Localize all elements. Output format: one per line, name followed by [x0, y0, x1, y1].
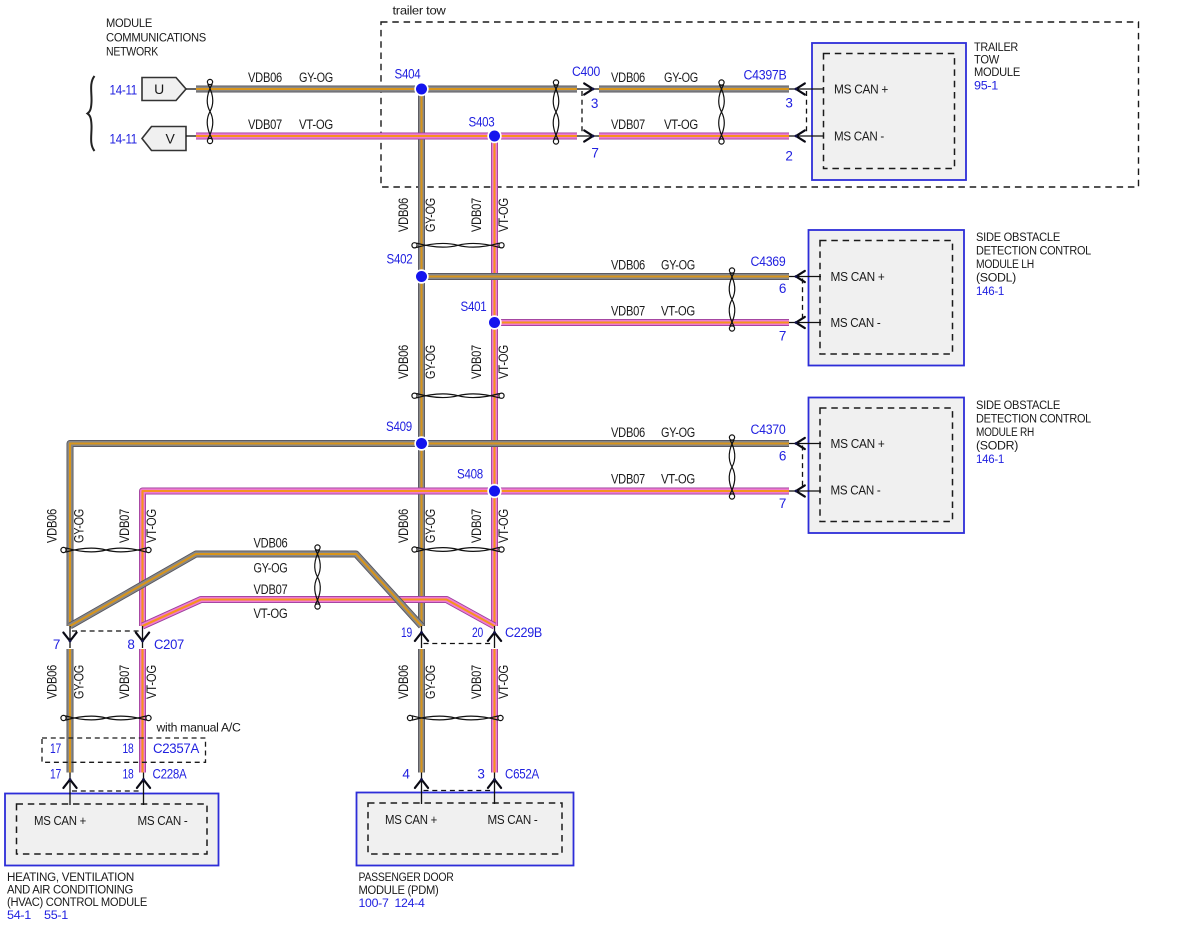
svg-text:7: 7	[53, 637, 60, 652]
connector C229B stem pin 19	[421, 626, 423, 648]
svg-text:VDB06: VDB06	[45, 665, 60, 699]
connector C652A stem pin 3	[494, 773, 496, 805]
connector V symbol	[142, 127, 186, 151]
twisted pair symbol on vertical buses above S402	[412, 243, 504, 248]
connector C228A arrow pin 17	[63, 780, 76, 788]
connector C4370 lead MS CAN -	[789, 490, 821, 492]
svg-text:(SODR): (SODR)	[976, 439, 1018, 453]
splice S408 dot	[487, 484, 501, 498]
svg-text:17: 17	[50, 767, 61, 782]
connector C400 arrow pin 7	[584, 130, 593, 141]
connector C4397B arrow pin 2	[796, 130, 805, 141]
svg-text:GY-OG: GY-OG	[72, 665, 87, 699]
svg-text:VDB06: VDB06	[254, 536, 288, 551]
wire VDB07 top bus (V connector to C400)	[196, 133, 577, 140]
svg-text:55-1: 55-1	[44, 908, 68, 922]
svg-text:with manual A/C: with manual A/C	[156, 721, 241, 735]
svg-text:100-7: 100-7	[359, 896, 389, 910]
svg-text:VT-OG: VT-OG	[496, 509, 511, 543]
connector C4369 lead MS CAN -	[789, 322, 821, 324]
svg-text:GY-OG: GY-OG	[423, 665, 438, 699]
twisted pair symbol on vertical buses above C229B	[412, 547, 504, 552]
trailer tow module box inner dashed outline	[824, 54, 955, 169]
svg-text:DETECTION CONTROL: DETECTION CONTROL	[976, 244, 1091, 258]
svg-text:VDB06: VDB06	[396, 509, 411, 543]
connector C229B dashed link	[424, 643, 493, 645]
svg-text:GY-OG: GY-OG	[423, 345, 438, 379]
svg-text:VT-OG: VT-OG	[496, 665, 511, 699]
twisted pair symbol above PDM pins 4-3	[407, 715, 503, 720]
wire VDB07 vertical (C207 pin 8 to HVAC pin 18)	[139, 649, 146, 773]
svg-text:MS CAN -: MS CAN -	[834, 130, 884, 144]
left curly brace	[88, 76, 95, 151]
wire VDB06 top bus (C400 to C4397B)	[599, 86, 789, 93]
connector C4370 lead MS CAN +	[789, 443, 821, 445]
svg-text:VT-OG: VT-OG	[661, 304, 695, 319]
svg-text:VDB06: VDB06	[45, 509, 60, 543]
connector C4397B lead MS CAN -	[789, 135, 823, 137]
svg-text:GY-OG: GY-OG	[664, 70, 698, 85]
SODL module box inner dashed outline	[820, 241, 953, 355]
svg-text:MS CAN +: MS CAN +	[385, 813, 437, 827]
svg-text:6: 6	[779, 281, 786, 296]
svg-text:VT-OG: VT-OG	[496, 198, 511, 232]
connector C400 arrow pin 3	[584, 83, 593, 94]
svg-text:VDB07: VDB07	[611, 304, 645, 319]
svg-text:SIDE OBSTACLE: SIDE OBSTACLE	[976, 398, 1060, 412]
svg-text:3: 3	[591, 96, 598, 111]
svg-text:VT-OG: VT-OG	[496, 345, 511, 379]
svg-text:GY-OG: GY-OG	[72, 509, 87, 543]
svg-text:C207: C207	[154, 637, 184, 652]
lead from connector U	[186, 88, 196, 90]
svg-text:U: U	[154, 81, 164, 97]
svg-text:V: V	[165, 131, 175, 147]
svg-text:C4397B: C4397B	[744, 68, 787, 83]
twisted pair symbol on HVAC branch above C207	[61, 547, 151, 552]
svg-text:VT-OG: VT-OG	[299, 117, 333, 132]
connector C229B arrow pin 19	[415, 633, 428, 641]
svg-text:GY-OG: GY-OG	[661, 425, 695, 440]
svg-text:MS CAN -: MS CAN -	[831, 316, 881, 330]
svg-text:VDB07: VDB07	[469, 345, 484, 379]
splice S401 dot	[487, 315, 501, 329]
twisted pair symbol between C400 and C4397B	[719, 80, 725, 144]
svg-text:C228A: C228A	[153, 767, 187, 782]
svg-text:VDB07: VDB07	[248, 117, 282, 132]
connector C228A stem pin 17	[69, 773, 71, 806]
svg-text:C400: C400	[572, 64, 600, 79]
connector C4369 lead MS CAN +	[789, 276, 821, 278]
svg-text:VDB07: VDB07	[117, 665, 132, 699]
twisted pair symbol on vertical buses above S409	[412, 393, 504, 398]
connector C207 stem pin 7	[69, 626, 71, 648]
wire VDB06 vertical (C229B pin 19 to PDM pin 4)	[418, 649, 425, 773]
svg-text:MS CAN +: MS CAN +	[831, 270, 885, 284]
svg-text:7: 7	[779, 329, 786, 344]
svg-text:C229B: C229B	[505, 625, 542, 640]
wire VDB07 S408 row (left corner to C4370)	[143, 491, 790, 495]
splice S403 dot	[487, 129, 501, 143]
svg-text:VDB07: VDB07	[469, 665, 484, 699]
twisted pair symbol on C4369 wires	[729, 268, 735, 331]
svg-text:54-1: 54-1	[7, 908, 31, 922]
connector C207 stem pin 8	[142, 626, 144, 648]
connector C229B stem pin 20	[494, 626, 496, 648]
connector C4369 arrow pin 6	[796, 271, 805, 282]
connector C4370 arrow pin 6	[796, 438, 805, 449]
svg-text:VDB06: VDB06	[396, 345, 411, 379]
svg-text:20: 20	[472, 625, 483, 640]
svg-text:4: 4	[402, 767, 410, 782]
svg-text:19: 19	[401, 625, 412, 640]
svg-text:VDB07: VDB07	[117, 509, 132, 543]
PDM module box inner dashed outline	[368, 803, 562, 854]
svg-text:146-1: 146-1	[976, 452, 1004, 466]
svg-text:(HVAC) CONTROL MODULE: (HVAC) CONTROL MODULE	[7, 895, 147, 909]
SODR module box	[809, 398, 965, 534]
svg-text:VT-OG: VT-OG	[144, 509, 159, 543]
svg-text:VDB06: VDB06	[611, 258, 645, 273]
wire VDB06 S409 row (left corner to C4370)	[70, 444, 789, 448]
svg-text:VDB07: VDB07	[611, 472, 645, 487]
wire VDB07 HVAC branch vertical (corner to C207 pin 8)	[139, 491, 146, 626]
twisted pair symbol above HVAC pins 17-18	[61, 715, 151, 720]
connector C207 arrow pin 7	[63, 633, 76, 641]
svg-text:SIDE OBSTACLE: SIDE OBSTACLE	[976, 230, 1060, 244]
HVAC module box	[5, 794, 219, 866]
svg-text:17: 17	[50, 741, 61, 756]
svg-text:MODULE RH: MODULE RH	[976, 425, 1034, 439]
splice S404 dot	[414, 82, 428, 96]
trailer tow module box	[812, 43, 966, 180]
svg-text:VDB07: VDB07	[254, 582, 288, 597]
connector C652A stem pin 4	[421, 773, 423, 805]
svg-text:S403: S403	[469, 115, 495, 130]
svg-text:GY-OG: GY-OG	[254, 561, 288, 576]
svg-text:DETECTION CONTROL: DETECTION CONTROL	[976, 412, 1091, 426]
svg-text:trailer tow: trailer tow	[393, 4, 446, 18]
svg-text:2: 2	[785, 149, 792, 164]
svg-text:MS CAN -: MS CAN -	[488, 813, 538, 827]
wire VDB06 HVAC branch vertical (corner to C207 pin 7)	[67, 444, 74, 627]
PDM module box	[357, 793, 574, 866]
svg-text:6: 6	[779, 449, 786, 464]
connector C4397B dashed link	[806, 91, 808, 134]
twisted pair symbol on C4370 wires	[729, 435, 735, 499]
svg-text:VDB07: VDB07	[469, 198, 484, 232]
wire VDB06 top bus (U connector to C400)	[196, 86, 577, 93]
wire VDB06 diagonal (C207 pin 7 to C229B pin 19)	[70, 554, 422, 626]
svg-text:3: 3	[477, 767, 484, 782]
svg-text:GY-OG: GY-OG	[661, 258, 695, 273]
svg-text:MODULE: MODULE	[106, 16, 152, 30]
svg-text:(SODL): (SODL)	[976, 271, 1016, 285]
svg-text:MS CAN +: MS CAN +	[831, 437, 885, 451]
svg-text:18: 18	[123, 741, 134, 756]
splice S409 dot	[414, 436, 428, 450]
svg-text:S404: S404	[395, 66, 422, 81]
svg-text:MS CAN +: MS CAN +	[34, 814, 86, 828]
svg-text:14-11: 14-11	[110, 132, 138, 147]
twisted pair symbol left of C400	[553, 80, 559, 144]
connector C4370 dashed link	[802, 446, 804, 490]
svg-text:GY-OG: GY-OG	[423, 198, 438, 232]
wire VDB06 vertical (C207 pin 7 to HVAC pin 17)	[67, 649, 74, 773]
svg-text:C4370: C4370	[751, 422, 786, 437]
svg-text:VT-OG: VT-OG	[254, 606, 288, 621]
connector C2357A dashed box	[42, 738, 206, 762]
HVAC module box inner dashed outline	[17, 804, 208, 854]
svg-text:MS CAN -: MS CAN -	[138, 814, 188, 828]
connector C4397B arrow pin 3	[796, 83, 805, 94]
svg-text:8: 8	[127, 637, 134, 652]
svg-text:146-1: 146-1	[976, 284, 1004, 298]
svg-text:VDB06: VDB06	[396, 665, 411, 699]
connector C652A dashed link	[424, 790, 493, 792]
svg-text:COMMUNICATIONS: COMMUNICATIONS	[106, 31, 206, 45]
connector C4369 arrow pin 7	[796, 317, 805, 328]
svg-text:VDB07: VDB07	[469, 509, 484, 543]
svg-text:VDB06: VDB06	[611, 425, 645, 440]
wire VDB07 diagonal (C207 pin 8 to C229B pin 20)	[143, 600, 495, 627]
trailer tow dashed enclosure	[381, 22, 1139, 187]
connector C4369 dashed link	[802, 279, 804, 321]
wire VDB07 vertical (C229B pin 20 to PDM pin 3)	[491, 649, 498, 773]
wire VDB07 top bus (C400 to C4397B)	[599, 133, 789, 140]
connector C229B arrow pin 20	[488, 633, 501, 641]
svg-text:VDB07: VDB07	[611, 117, 645, 132]
svg-text:MODULE LH: MODULE LH	[976, 257, 1034, 271]
connector C228A arrow pin 18	[137, 780, 150, 788]
svg-text:7: 7	[779, 496, 786, 511]
twisted pair symbol after U-V connectors	[207, 79, 213, 143]
connector C228A dashed link	[72, 790, 142, 792]
svg-text:MODULE (PDM): MODULE (PDM)	[359, 883, 439, 897]
svg-text:GY-OG: GY-OG	[299, 70, 333, 85]
svg-text:VT-OG: VT-OG	[661, 472, 695, 487]
svg-text:MODULE: MODULE	[974, 65, 1020, 79]
svg-text:S402: S402	[387, 252, 413, 267]
connector C400 stem VDB06	[577, 88, 599, 90]
svg-text:VDB06: VDB06	[396, 198, 411, 232]
svg-text:VDB06: VDB06	[611, 70, 645, 85]
svg-text:MS CAN -: MS CAN -	[831, 484, 881, 498]
svg-text:C4369: C4369	[751, 254, 786, 269]
connector U symbol	[142, 78, 186, 101]
wire VDB06 vertical bus (S404 to C229B pin 19)	[418, 89, 425, 626]
svg-text:95-1: 95-1	[974, 79, 998, 93]
svg-text:VT-OG: VT-OG	[144, 665, 159, 699]
twisted pair symbol on diagonal pair	[315, 545, 321, 609]
connector C228A stem pin 18	[143, 773, 145, 806]
svg-text:124-4: 124-4	[395, 896, 425, 910]
splice S402 dot	[414, 269, 428, 283]
wire VDB07 S401 to C4369	[495, 319, 790, 326]
connector C4397B lead MS CAN +	[789, 88, 823, 90]
connector C400 dashed link	[581, 91, 583, 134]
svg-text:S409: S409	[386, 419, 412, 434]
connector C207 arrow pin 8	[136, 633, 149, 641]
svg-text:7: 7	[591, 146, 598, 161]
svg-text:18: 18	[123, 767, 134, 782]
SODL module box	[809, 230, 965, 366]
svg-text:S408: S408	[457, 467, 483, 482]
svg-text:VT-OG: VT-OG	[664, 117, 698, 132]
connector C652A arrow pin 3	[488, 780, 501, 788]
wire VDB07 vertical bus (S403 to C229B pin 20)	[491, 136, 498, 626]
wire VDB06 S402 to C4369	[422, 273, 790, 280]
connector C400 stem VDB07	[577, 135, 599, 137]
svg-text:VDB06: VDB06	[248, 70, 282, 85]
lead from connector V	[186, 135, 196, 137]
svg-text:NETWORK: NETWORK	[106, 44, 159, 58]
SODR module box inner dashed outline	[820, 408, 953, 522]
svg-text:3: 3	[785, 96, 792, 111]
connector C207 dashed link	[72, 630, 141, 632]
svg-text:GY-OG: GY-OG	[423, 509, 438, 543]
connector C4370 arrow pin 7	[796, 485, 805, 496]
svg-text:PASSENGER DOOR: PASSENGER DOOR	[359, 870, 454, 884]
svg-text:S401: S401	[461, 299, 487, 314]
svg-text:14-11: 14-11	[110, 83, 138, 98]
svg-text:MS CAN +: MS CAN +	[834, 83, 888, 97]
svg-text:C2357A: C2357A	[153, 741, 199, 756]
svg-text:C652A: C652A	[505, 767, 539, 782]
connector C652A arrow pin 4	[415, 780, 428, 788]
